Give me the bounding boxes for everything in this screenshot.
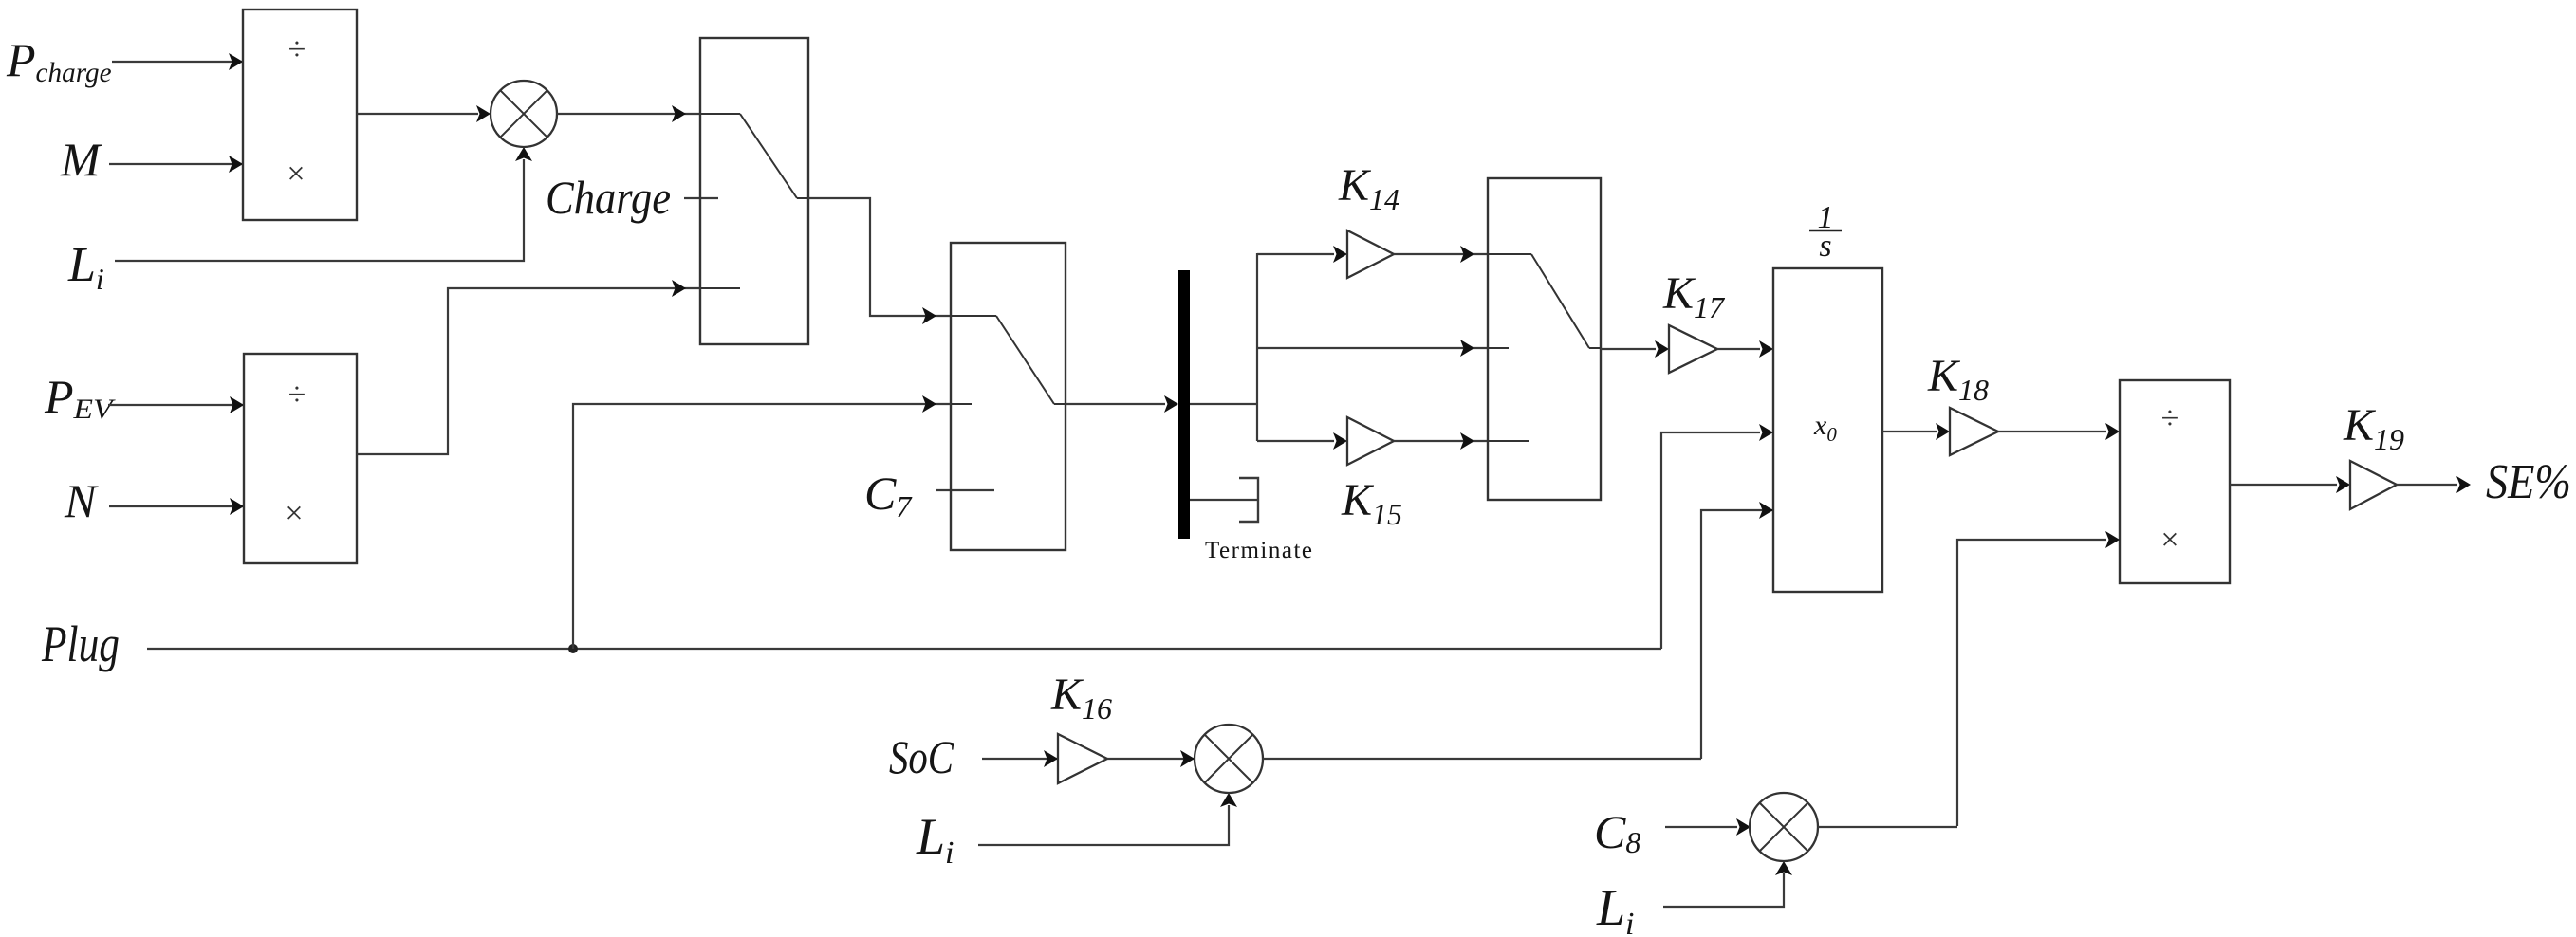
divide block U1 (243, 9, 357, 220)
svg-text:N: N (64, 474, 99, 527)
wire C8 to product P3 (1665, 818, 1751, 836)
wire U1 output to product P1 (357, 105, 491, 122)
svg-text:×: × (285, 496, 303, 531)
wire Li to product P2 (978, 793, 1237, 845)
wire Plug main line (147, 648, 1661, 650)
wire N to divide block U2 (109, 498, 244, 515)
wire PEV to divide block U2 (108, 396, 244, 413)
divide block U3 (2120, 380, 2230, 583)
svg-text:s: s (1819, 229, 1831, 264)
wire Plug branch to SW2 middle input (573, 395, 951, 649)
gain K18 (1950, 408, 1998, 455)
gain K15 (1347, 417, 1394, 465)
wire SW3 output to K17 (1601, 340, 1669, 358)
wire branch to gain K15 (1257, 432, 1347, 450)
svg-text:SoC: SoC (889, 730, 954, 783)
wire M to divide block U1 (109, 156, 243, 173)
terminator bracket (1239, 478, 1258, 522)
svg-text:÷: ÷ (2161, 401, 2179, 436)
wire K19 to SE% output (2397, 476, 2471, 493)
svg-text:÷: ÷ (288, 377, 306, 413)
wire C8 product to U3 lower input (1957, 531, 2120, 826)
wire branch to gain K14 (1257, 246, 1347, 263)
divide block U2 (244, 354, 357, 563)
wire U2 output to SW1 lower input (357, 280, 700, 454)
switch SW3 (1488, 178, 1601, 500)
switch SW1 (700, 38, 808, 344)
svg-text:Terminate: Terminate (1205, 538, 1312, 563)
integrator block (1773, 268, 1882, 592)
wire K18 to divide block U3 (1998, 423, 2120, 440)
bus bar (1178, 270, 1190, 539)
svg-text:M: M (60, 133, 102, 186)
svg-text:÷: ÷ (288, 32, 306, 67)
svg-text:Charge: Charge (546, 171, 671, 224)
wire Li to product P1 (115, 147, 532, 261)
wire Plug to integrator input 2 (1661, 424, 1773, 649)
wire Pcharge to divide block U1 (112, 53, 243, 70)
wire SoC product to integrator input 3 (1701, 502, 1773, 759)
wire Li to product P3 (1663, 861, 1792, 907)
product P1 (491, 81, 557, 147)
wire P1 output to switch SW1 (557, 105, 700, 122)
svg-text:×: × (287, 156, 305, 192)
gain K17 (1669, 325, 1717, 373)
wire U3 output to K19 (2230, 476, 2350, 493)
junction dot on Plug line (568, 644, 578, 653)
wire P2 output toward integrator (1263, 758, 1701, 760)
svg-text:SE%: SE% (2486, 455, 2571, 509)
wire P3 output to riser (1818, 826, 1957, 828)
gain K16 (1058, 734, 1107, 783)
gain K14 (1347, 230, 1394, 278)
wire SoC to gain K16 (982, 750, 1058, 767)
wire integrator output to K18 (1882, 423, 1950, 440)
svg-text:×: × (2160, 523, 2178, 558)
wire K14 to SW3 (1394, 246, 1488, 263)
wire C7 control dash into SW2 (936, 489, 994, 491)
wire branch to SW3 middle input (1257, 340, 1488, 357)
wire K16 to product P2 (1107, 750, 1195, 767)
svg-text:Plug: Plug (41, 615, 120, 672)
wire SW2 output to bus bar (1066, 395, 1178, 413)
product P3 (1750, 793, 1818, 861)
wire bus bar to terminator (1190, 499, 1258, 501)
gain K19 (2350, 461, 2397, 509)
wire bus bar to branch node (1190, 403, 1257, 405)
switch SW2 (951, 243, 1066, 550)
wire K17 to integrator (1717, 340, 1773, 358)
integrator 1/s label (1809, 200, 1842, 264)
wire Charge control dash into SW1 (684, 197, 718, 199)
product P2 (1195, 725, 1263, 793)
wire K15 to SW3 (1394, 432, 1488, 450)
wire SW1 output to switch SW2 (808, 198, 951, 324)
node branch vertical (1256, 253, 1258, 441)
